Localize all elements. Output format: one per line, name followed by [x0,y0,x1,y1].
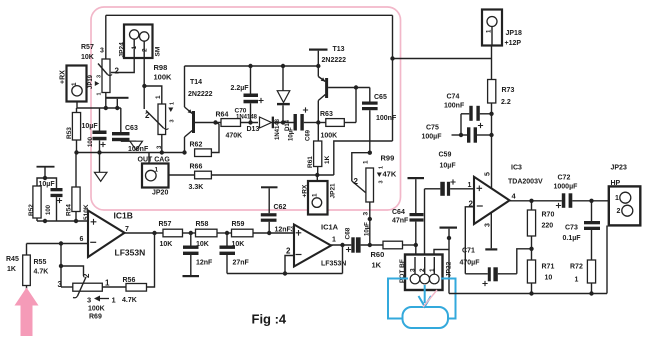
wire R69 to R56 [102,286,126,288]
svg-text:C75: C75 [426,125,439,132]
svg-text:100µF: 100µF [422,134,443,141]
wire R57-R58 [183,232,196,234]
svg-text:+RX: +RX [302,184,309,197]
svg-text:C72: C72 [558,175,571,182]
svg-text:C71: C71 [462,248,475,255]
svg-text:C73: C73 [565,225,578,232]
op-amp IC1A LF353N [294,225,331,267]
wire R99 pin3 down [369,202,371,245]
svg-text:R60: R60 [371,250,385,259]
svg-text:2: 2 [142,48,149,52]
capacitor C59 10uF [440,182,445,196]
svg-text:LF353N: LF353N [115,248,146,258]
svg-text:R62: R62 [190,142,203,149]
wire JP24 pin2 down [143,58,145,86]
svg-text:100K: 100K [88,306,105,313]
node C62 / IC1A+ junction [267,231,271,235]
svg-text:JP20: JP20 [152,190,168,197]
svg-text:2.2: 2.2 [501,99,511,106]
wire R57 bottom [105,93,107,109]
svg-text:R73: R73 [502,87,515,94]
svg-text:1: 1 [615,195,619,202]
svg-text:7: 7 [125,226,129,233]
wire pin3 drop to POT BF [415,245,417,255]
svg-text:10K: 10K [232,241,245,248]
wire feedback bottom run [227,273,343,275]
svg-text:2N2222: 2N2222 [188,91,213,98]
resistor R54 [75,153,77,188]
connector JP19 +RX [67,66,87,102]
capacitor C73 0.1uF [591,201,593,221]
svg-text:10µF: 10µF [440,163,457,170]
wire R69 wiper bracket [61,266,84,276]
wire IC1B out [125,232,164,234]
wire +12V top rail [106,14,393,16]
diode D13 [260,117,272,128]
svg-text:1: 1 [575,277,579,284]
svg-text:R71: R71 [542,264,555,271]
svg-text:C64: C64 [392,209,405,216]
svg-text:R98: R98 [154,63,168,72]
connector POT BF JP22 [405,255,443,291]
potentiometer R69 100K [73,283,103,291]
wire C71 to R70/R71 node [517,249,532,274]
resistor R61 [317,123,319,142]
node R99 top junction [368,151,372,155]
capacitor C64 47nF with stub bar [408,177,425,179]
svg-text:12nF: 12nF [196,260,213,267]
svg-text:C68: C68 [345,227,352,239]
svg-text:27nF: 27nF [233,260,250,267]
node R70/R71 [529,247,533,251]
svg-text:C69: C69 [306,129,312,141]
potentiometer R98 100K [144,86,162,104]
wire R98 bottom [161,135,163,153]
resistor R70 220 [531,201,533,210]
svg-text:3: 3 [58,280,63,289]
svg-text:100: 100 [46,204,52,215]
diode D14 1N4148 [282,66,284,91]
capacitor C75 [452,134,468,136]
wire rail66 drop to T14 collector [184,66,186,107]
svg-text:3: 3 [362,212,369,216]
svg-text:4: 4 [512,192,517,201]
wire +12V to JP18 column [393,58,492,60]
svg-text:IC1B: IC1B [114,211,133,221]
svg-text:1: 1 [363,160,370,164]
capacitor C65 100nF [369,88,371,102]
op-amp IC1B LF353N [88,211,125,258]
capacitor C74 [461,113,469,115]
node IC1A out junction [340,243,344,247]
node R61 bottom junction [315,173,319,177]
wire JP18 to +12V node [491,46,493,59]
svg-text:1: 1 [112,296,116,305]
resistor R72 1 [587,260,595,283]
svg-text:1N4148: 1N4148 [275,118,281,140]
svg-text:D13: D13 [247,126,260,133]
potentiometer R99 47K [352,153,370,181]
wire top rail left drop to R57 pot [105,15,107,59]
svg-text:R63: R63 [320,111,333,118]
ground symbol below OUT CAG [99,153,101,173]
capacitor C63 100nF [120,108,122,132]
wire R64 to D13 [241,122,259,124]
svg-text:10K: 10K [81,54,94,61]
svg-text:1K: 1K [372,261,382,270]
svg-text:100nF: 100nF [376,115,397,122]
wire R73 down to IC3 pin5 [491,103,493,188]
svg-text:1: 1 [429,268,436,272]
resistor R62 (series) [195,149,212,157]
svg-text:3: 3 [410,268,417,272]
svg-text:1N4148: 1N4148 [236,115,258,121]
resistor R55 [26,244,28,256]
svg-text:1: 1 [131,46,138,50]
svg-text:R52: R52 [28,204,35,216]
svg-text:JP22: JP22 [446,261,453,277]
resistor R63 [326,119,345,127]
node IC1B output junction [152,231,156,235]
wire JP24 pin1 to R57 wiper [111,58,134,73]
node R98 bracket junction [142,84,146,88]
wire C59 drop to POT BF pin2 [424,189,426,255]
node R69 wiper tap [59,264,63,268]
resistor R71 10 [531,249,533,260]
svg-text:2: 2 [115,67,120,76]
connector JP18 +12P [482,10,502,46]
wire IC1A pin2 stub [285,256,294,274]
resistor R53 [76,108,78,113]
node input/R69 junction [59,241,63,245]
svg-text:JP18: JP18 [506,30,522,37]
svg-text:1K: 1K [324,155,331,164]
svg-text:3: 3 [379,180,385,183]
svg-text:HP: HP [611,180,621,187]
capacitor C70 2.2uF [250,66,252,94]
svg-text:1: 1 [155,167,159,174]
wire pin6 input [27,243,89,245]
svg-text:2: 2 [354,177,359,186]
svg-text:T14: T14 [190,79,202,86]
node R70 top [529,199,533,203]
svg-text:3: 3 [97,75,103,78]
connector JP24 SM [124,25,153,59]
power stub bar above T13 [309,49,328,51]
capacitor C71 470uF [465,273,488,275]
wire JP23 pin2 drop [606,226,608,294]
connector JP23 HP [609,186,641,225]
svg-text:47K: 47K [383,170,397,179]
pink input arrow [15,288,39,337]
svg-text:1: 1 [105,279,110,288]
node 27nF tap [225,231,229,235]
svg-text:R56: R56 [123,277,136,284]
capacitor C67 10uF [99,108,101,131]
node base/R62 junction [213,120,217,124]
svg-text:2N2222: 2N2222 [322,57,347,64]
svg-text:R55: R55 [34,259,47,266]
wire R63 riser [355,88,357,123]
resistor R59 [232,229,254,237]
svg-text:10µF: 10µF [364,222,370,236]
capacitor 12nF shunt [190,233,192,246]
node 12nF tap [189,231,193,235]
resistor R66 3.3K (series on rail) [195,171,212,179]
blue wiper arrow [419,285,432,307]
svg-text:4.7K: 4.7K [122,297,137,304]
svg-text:R57: R57 [81,44,94,51]
svg-text:R64: R64 [216,112,229,119]
svg-text:220: 220 [542,223,554,230]
svg-text:100: 100 [88,136,94,147]
node C73 top [589,199,593,203]
svg-text:C59: C59 [439,152,452,159]
wire JP20 stub [148,153,150,164]
node base/R63 junction [354,85,358,89]
svg-text:R53: R53 [66,127,73,139]
svg-text:SM: SM [155,47,162,57]
svg-text:470K: 470K [226,133,243,140]
svg-text:C74: C74 [447,94,460,101]
wire R62 riser [211,124,219,153]
svg-text:C63: C63 [125,125,138,132]
svg-text:3.3K: 3.3K [189,184,204,191]
wire feedback riser [342,245,344,274]
wire node108 [77,107,121,109]
svg-text:47nF: 47nF [392,218,409,225]
svg-text:0.1µF: 0.1µF [563,235,582,242]
blue pot body [403,307,449,328]
wire T13 base right [328,87,370,89]
wire IC3 pin3 ground stub [490,213,492,249]
svg-text:R69: R69 [89,314,102,321]
svg-text:5: 5 [485,172,492,176]
wire R58-R59 [217,232,232,234]
svg-text:2: 2 [145,111,150,120]
capacitor 27nF shunt [226,233,228,246]
wire T14 base to R64 [195,122,221,124]
svg-text:100K: 100K [154,73,173,82]
pink wiper diagonal [423,290,437,307]
wire top rail right drop x=392 [392,15,394,141]
wire C74/C75 left tee [460,114,462,135]
node R52/C66 top [43,176,47,180]
ground symbol below C63 [121,140,136,142]
op-amp IC3 TDA2003V [474,177,510,224]
svg-text:R57: R57 [159,221,172,228]
svg-text:TDA2003V: TDA2003V [508,179,543,186]
svg-text:3: 3 [87,296,91,305]
svg-text:2: 2 [82,273,91,278]
svg-text:470µF: 470µF [460,260,481,267]
node D14 top junction [281,64,285,68]
resistor R58 [196,229,218,237]
svg-text:R99: R99 [381,154,395,163]
wire pin5 rail [37,220,88,222]
node +12V junction at (392.5,58.5) [390,56,394,60]
svg-text:IC1A: IC1A [321,223,339,232]
blue wire left [388,279,408,319]
svg-text:JP24: JP24 [119,42,126,58]
wire IC1A out [331,244,351,246]
wire +12V feed down to rail175 [334,141,393,175]
svg-text:R72: R72 [570,264,583,271]
svg-text:R61: R61 [307,156,314,168]
svg-text:JP19: JP19 [88,74,94,89]
capacitor C66 10uF [45,178,57,188]
svg-text:Fig :4: Fig :4 [252,312,287,327]
connector JP21 [308,181,328,215]
wire collector rail y66 [185,65,319,67]
resistor R56 [126,284,147,292]
wire JP19 down to node108 [76,102,78,109]
svg-text:3: 3 [100,48,104,55]
wire to POT BF pin1 [434,250,449,255]
svg-text:1: 1 [379,166,385,169]
svg-text:100nF: 100nF [128,146,149,153]
node T13 collector rail junction [316,64,320,68]
transistor T13 2N2222 [317,66,319,77]
blue wire right [441,279,456,319]
svg-text:IC3: IC3 [511,165,522,172]
wire ground rail bottom right [449,293,607,295]
transistor T14 2N2222 [185,107,193,114]
svg-text:R58: R58 [196,221,209,228]
svg-text:1: 1 [71,82,78,86]
svg-text:100K: 100K [321,133,338,140]
resistor R64 [221,119,241,127]
capacitor C69 10uF [294,114,297,131]
svg-text:10: 10 [545,275,553,282]
capacitor C72 1000uF [562,193,566,208]
capacitor C68 10uF [351,237,354,252]
pink highlight box (annotation rectangle) [91,7,401,210]
wire IC3 output [510,200,562,202]
node C70 top junction [248,64,252,68]
svg-text:C70: C70 [235,108,247,115]
wire JP21 stub [316,175,318,181]
connector JP20 [142,164,169,188]
svg-text:C62: C62 [274,204,287,211]
svg-text:2: 2 [617,208,621,215]
resistor R57 (series 10K) [163,229,183,237]
svg-text:10K: 10K [160,241,173,248]
node feedback bottom [283,271,287,275]
resistor R52 [37,178,45,186]
node pin3 mid [368,217,372,221]
svg-text:2.2µF: 2.2µF [231,85,250,92]
svg-text:4.7K: 4.7K [34,269,49,276]
svg-text:3: 3 [485,223,492,227]
svg-text:1: 1 [155,95,162,99]
wire rail y175 [169,174,334,176]
wire R60 out [403,244,416,246]
svg-text:6: 6 [80,236,84,243]
node R60/C64 junction [414,243,418,247]
svg-text:R54: R54 [66,204,73,216]
svg-text:10µF: 10µF [289,127,295,141]
svg-text:10K: 10K [196,241,209,248]
svg-text:R70: R70 [542,212,555,219]
potentiometer R57 10K [102,59,110,93]
resistor R60 [383,241,403,249]
svg-text:JP23: JP23 [611,165,627,172]
capacitor C62 12nF with stub bar [261,186,278,188]
svg-text:100nF: 100nF [444,103,465,110]
ground stub bar right [440,227,458,229]
svg-text:+RX: +RX [60,70,67,84]
svg-text:2: 2 [419,268,426,272]
svg-text:R59: R59 [232,221,245,228]
wire OUT CAG line [77,152,185,154]
svg-text:1: 1 [332,237,336,244]
svg-text:3: 3 [170,119,176,122]
svg-text:+12P: +12P [505,40,522,47]
stub bar above C63/C67 [106,97,129,99]
svg-text:10µF: 10µF [82,123,99,130]
svg-text:1000µF: 1000µF [554,184,579,191]
svg-text:10µF: 10µF [39,181,56,188]
svg-text:1: 1 [97,92,103,95]
svg-text:T13: T13 [333,46,345,53]
svg-text:1: 1 [468,182,472,189]
wire R56 feedback riser [147,233,155,287]
svg-text:2: 2 [286,247,291,256]
wire R59 to IC1A+ [253,232,294,234]
wire input to R69 [60,244,62,288]
wire IC3 pin2 stub [465,207,474,274]
resistor R73 [491,59,493,80]
svg-text:1: 1 [170,102,176,105]
stub bar above R52/C66 [37,166,55,168]
svg-text:JP21: JP21 [329,183,336,199]
node gnd stub junction [447,236,451,240]
svg-text:R66: R66 [190,164,203,171]
svg-text:1: 1 [311,193,318,197]
svg-text:R45: R45 [6,256,19,263]
svg-text:C65: C65 [374,94,387,101]
svg-text:1K: 1K [7,266,16,273]
